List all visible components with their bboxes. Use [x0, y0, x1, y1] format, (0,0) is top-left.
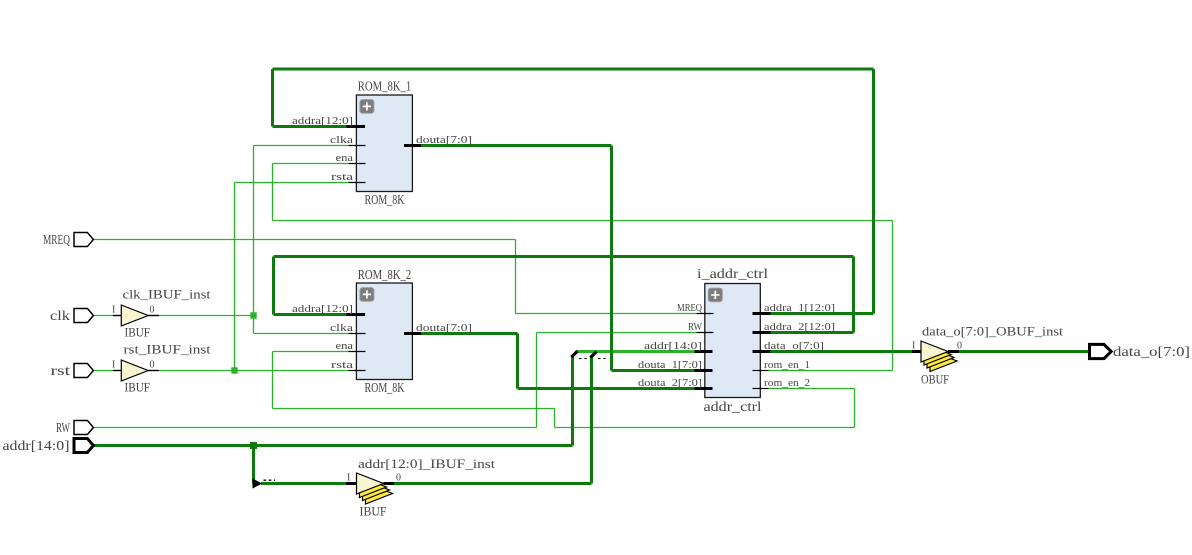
svg-text:0: 0	[150, 360, 155, 371]
svg-text:IBUF: IBUF	[125, 325, 151, 340]
svg-text:IBUF: IBUF	[125, 380, 151, 395]
port clk	[50, 309, 93, 325]
svg-text:RW: RW	[56, 421, 71, 436]
svg-text:addr_ctrl: addr_ctrl	[704, 400, 762, 415]
block i_addr_ctrl	[697, 267, 768, 415]
svg-text:douta[7:0]: douta[7:0]	[416, 322, 472, 334]
addr_ctrl pin douta_2[7:0]	[638, 377, 713, 389]
svg-text:clk: clk	[50, 309, 70, 324]
svg-text:data_o[7:0]: data_o[7:0]	[764, 340, 824, 352]
block ROM_8K_2	[356, 268, 412, 396]
wire net data_o addr_ctrl to OBUF to port (bold dark green)	[771, 350, 1090, 353]
svg-text:douta[7:0]: douta[7:0]	[416, 134, 472, 146]
expand + icon ROM_8K_2	[360, 288, 374, 302]
buffer rst_IBUF_inst U2	[112, 342, 211, 395]
svg-text:douta_2[7:0]: douta_2[7:0]	[638, 377, 702, 389]
svg-text:addr[14:0]: addr[14:0]	[644, 340, 702, 352]
svg-text:rom_en_2: rom_en_2	[764, 377, 810, 389]
node clk junction	[250, 312, 256, 318]
ROM_8K_1 pin rsta	[331, 171, 366, 183]
svg-text:rsta: rsta	[331, 359, 353, 371]
svg-text:rst: rst	[51, 364, 71, 379]
svg-text:clk_IBUF_inst: clk_IBUF_inst	[123, 287, 211, 302]
ROM_8K_1 pin ena	[336, 152, 366, 164]
svg-text:I: I	[112, 305, 115, 316]
svg-text:ROM_8K: ROM_8K	[365, 193, 405, 208]
bus ripper dots	[264, 479, 276, 481]
svg-text:0: 0	[150, 305, 155, 316]
svg-text:ROM_8K_2: ROM_8K_2	[358, 268, 412, 283]
svg-text:douta_1[7:0]: douta_1[7:0]	[638, 359, 702, 371]
wire diagonal jog addr vertical 1	[571, 351, 577, 357]
port MREQ	[43, 233, 93, 249]
svg-text:rst_IBUF_inst: rst_IBUF_inst	[124, 342, 211, 357]
svg-text:i_addr_ctrl: i_addr_ctrl	[697, 267, 768, 282]
addr_ctrl pin addra_2[12:0]	[753, 321, 836, 333]
ROM_8K_2 pin ena	[336, 340, 366, 352]
svg-text:rsta: rsta	[331, 171, 353, 183]
svg-text:addra_2[12:0]: addra_2[12:0]	[764, 321, 835, 333]
expand + icon i_addr_ctrl	[708, 288, 722, 302]
svg-text:I: I	[912, 341, 915, 352]
node rst junction	[231, 367, 237, 373]
wire net addr[14:0] into addr_ctrl pin (bold bright green)	[576, 350, 695, 353]
wire net RW (thin green)	[93, 333, 696, 428]
svg-text:IBUF: IBUF	[360, 504, 387, 519]
svg-text:0: 0	[957, 341, 962, 352]
svg-text:RW: RW	[688, 321, 702, 333]
svg-text:ena: ena	[336, 152, 354, 164]
wire net addra_1 feedback loop (bold dark green)	[273, 69, 874, 314]
buffer addr[12:0]_IBUF_inst U3 (multi-bit)	[346, 456, 495, 519]
svg-text:clka: clka	[330, 134, 353, 146]
wire net rst (thin green)	[93, 183, 348, 371]
svg-text:addr[14:0]: addr[14:0]	[3, 439, 70, 454]
node addr bus junction	[250, 442, 257, 449]
buffer data_o[7:0]_OBUF_inst U4 (multi-bit)	[912, 324, 1063, 387]
ROM_8K_2 pin rsta	[331, 359, 366, 371]
bus ripper arrow addr[12:0]	[253, 478, 263, 488]
wire net rom_en_2 (thin green)	[273, 352, 855, 428]
addr_ctrl pin data_o[7:0]	[753, 340, 825, 352]
buffer clk_IBUF_inst U1	[112, 287, 211, 340]
svg-text:addra[12:0]: addra[12:0]	[292, 115, 353, 127]
ROM_8K_2 pin addra[12:0]	[292, 303, 365, 315]
wire net rom_en_1 (thin green)	[273, 164, 893, 371]
wire net MREQ (thin green)	[93, 240, 696, 314]
wire net addra_2 feedback loop (bold dark green)	[274, 257, 854, 333]
svg-text:0: 0	[396, 473, 401, 484]
expand + icon ROM_8K_1	[360, 100, 374, 114]
svg-text:ena: ena	[336, 340, 354, 352]
addr_ctrl pin RW	[688, 321, 714, 333]
svg-text:addra_1[12:0]: addra_1[12:0]	[764, 302, 835, 314]
addr_ctrl pin MREQ	[677, 302, 714, 314]
svg-text:MREQ: MREQ	[43, 233, 70, 248]
svg-text:clka: clka	[330, 322, 353, 334]
ROM_8K_1 pin addra[12:0]	[292, 115, 365, 127]
wire net clk (thin green)	[93, 146, 348, 334]
port data_o[7:0] (output bus, bold outline)	[1090, 344, 1191, 360]
addr_ctrl pin rom_en_1	[753, 359, 811, 371]
svg-text:I: I	[112, 360, 115, 371]
wire net addr[14:0] from port (bold dark green)	[93, 356, 591, 484]
addr_ctrl pin rom_en_2	[753, 377, 811, 389]
svg-text:data_o[7:0]: data_o[7:0]	[1113, 345, 1190, 360]
svg-text:OBUF: OBUF	[921, 372, 949, 387]
svg-text:data_o[7:0]_OBUF_inst: data_o[7:0]_OBUF_inst	[922, 324, 1063, 339]
ROM_8K_1 pin clka	[330, 134, 366, 146]
port addr[14:0] (bus, bold outline)	[3, 439, 94, 455]
dotted bus-rip marks near diagonal jogs	[579, 358, 609, 360]
svg-text:rom_en_1: rom_en_1	[764, 359, 810, 371]
svg-text:addr[12:0]_IBUF_inst: addr[12:0]_IBUF_inst	[358, 456, 495, 471]
svg-text:ROM_8K_1: ROM_8K_1	[358, 80, 412, 95]
ROM_8K_2 pin douta[7:0]	[404, 322, 472, 334]
addr_ctrl pin addr[14:0]	[644, 340, 713, 352]
wire net douta_2 ROM_8K_2 to addr_ctrl (bold dark green)	[421, 334, 695, 389]
addr_ctrl pin douta_1[7:0]	[638, 359, 713, 371]
svg-text:I: I	[347, 473, 350, 484]
svg-text:addra[12:0]: addra[12:0]	[292, 303, 353, 315]
ROM_8K_1 pin douta[7:0]	[404, 134, 472, 146]
ROM_8K_2 pin clka	[330, 322, 366, 334]
wire diagonal jog addr vertical 2	[590, 352, 596, 358]
port RW	[56, 421, 93, 437]
svg-text:MREQ: MREQ	[677, 302, 702, 314]
addr_ctrl pin addra_1[12:0]	[753, 302, 836, 314]
block ROM_8K_1	[356, 80, 412, 209]
port rst	[51, 364, 94, 380]
svg-text:ROM_8K: ROM_8K	[365, 381, 405, 396]
wire net douta_1 ROM_8K_1 to addr_ctrl (bold dark green)	[421, 146, 695, 371]
